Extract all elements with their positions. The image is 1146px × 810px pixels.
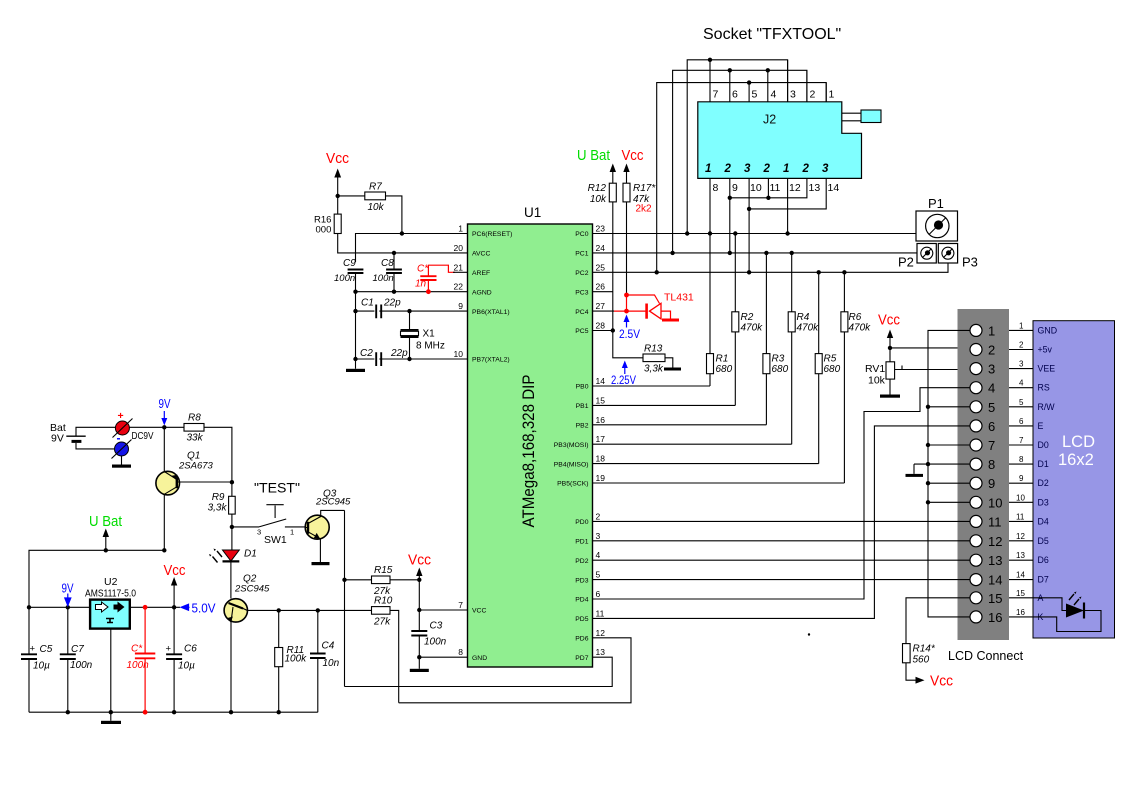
stray mark dot [808,633,810,635]
junction PC5/R12 [611,328,615,332]
svg-text:20: 20 [454,243,464,253]
svg-text:R14*: R14* [913,644,936,655]
wire PC0 row (pin23 to P1) [593,233,917,235]
svg-text:PD0: PD0 [575,519,588,526]
svg-text:10: 10 [454,349,464,359]
resistor R11 [275,610,307,712]
wire PC4 row pin27 [593,310,615,312]
junction PC2/R5 [817,270,821,274]
svg-text:1: 1 [290,528,294,537]
wire U Bat rail [29,550,164,607]
svg-text:11: 11 [988,514,1002,529]
wire AVCC row pin20 [352,252,468,254]
svg-text:+: + [118,410,124,422]
svg-text:R6: R6 [849,312,862,323]
wire J2 top pin stubs [710,60,826,102]
svg-text:R5: R5 [824,354,837,365]
svg-text:14: 14 [988,573,1002,588]
svg-text:3: 3 [988,362,995,377]
svg-text:3,3k: 3,3k [208,503,228,514]
svg-text:SW1: SW1 [264,534,287,546]
junction PC1/J2 [670,251,674,255]
svg-text:PC3: PC3 [575,289,588,296]
svg-text:15: 15 [596,395,606,405]
connector P3 [938,244,978,270]
wire D0 ground [928,444,970,446]
svg-text:VCC: VCC [472,608,486,615]
junction 9V row C7 [66,605,70,609]
power symbol U Bat (above R12) [577,148,616,183]
junction C8 top on AVCC [392,251,396,255]
svg-text:9: 9 [1019,474,1024,483]
svg-text:470k: 470k [797,323,820,334]
wire ground stem C9 column [355,292,357,369]
svg-text:R15: R15 [374,565,393,576]
svg-text:U Bat: U Bat [577,148,610,164]
svg-text:2SC945: 2SC945 [234,584,270,595]
wire GND pin row [419,656,467,658]
power symbol Vcc (C3) [408,553,431,580]
svg-text:23: 23 [596,224,606,234]
resistor R7 [338,182,402,234]
probe label 9V (regulator) [62,582,75,606]
LCD pin names [1038,325,1058,622]
svg-text:1: 1 [829,89,835,101]
svg-text:R13: R13 [644,344,663,355]
svg-text:D1: D1 [1038,459,1049,469]
junction J2 pin10 [747,207,751,211]
LCD connector circles and numbers [970,323,1002,625]
svg-text:11: 11 [596,608,605,618]
power symbol Vcc (RV1) [878,313,900,362]
svg-text:1n: 1n [415,279,427,290]
svg-text:R2: R2 [741,312,754,323]
svg-text:12: 12 [596,628,606,638]
wire PD6 wrap-around [399,638,631,703]
svg-text:PB2: PB2 [576,423,589,430]
svg-text:14: 14 [596,376,606,386]
svg-text:D4: D4 [1038,516,1049,526]
svg-text:P3: P3 [962,255,978,270]
svg-text:PD3: PD3 [575,577,588,584]
svg-text:17: 17 [596,434,606,444]
ground (LCD data) [906,474,924,477]
wire PB4 row pin18 [593,463,819,465]
regulator U2 AMS1117-5.0 [85,576,136,629]
resistor R2 [732,234,763,406]
svg-text:100n: 100n [424,637,447,648]
svg-text:3: 3 [596,531,601,541]
svg-text:14: 14 [828,182,840,194]
svg-text:PC2: PC2 [575,270,588,277]
svg-text:R3: R3 [772,354,785,365]
svg-text:D2: D2 [1038,478,1049,488]
svg-text:5.0V: 5.0V [192,602,217,616]
svg-text:PD7: PD7 [575,655,588,662]
junction Q1 collector rail [162,548,166,552]
resistor R17* [623,183,656,295]
ground (R13) [664,368,681,371]
svg-text:Socket "TFXTOOL": Socket "TFXTOOL" [703,26,841,43]
svg-text:3: 3 [822,163,829,175]
U1 right pin numbers [596,224,606,658]
svg-text:PD5: PD5 [575,616,588,623]
wire PC3 stub pin26 [593,291,614,293]
resistor R1 [707,234,733,387]
wire +5v to LCD pin2 [890,347,970,349]
svg-text:10: 10 [1016,493,1025,502]
wire VEE wiper to LCD pin3 [902,369,970,371]
svg-text:2: 2 [802,163,810,175]
connector J2 socket body [698,102,881,179]
svg-text:3: 3 [744,163,751,175]
resistor R4 [788,253,819,444]
wire PD2 to LCD pin13 [593,559,971,561]
wire PB0 row pin14 [593,385,711,387]
junction PC0/R2 [733,231,737,235]
junction PC2/pin10 [747,270,751,274]
resistor R3 [763,253,789,425]
svg-text:3: 3 [790,89,796,101]
svg-text:PB0: PB0 [576,384,589,391]
svg-text:15: 15 [988,591,1002,606]
J2 italic pin-row numbers 1 2 3 2 1 2 3 [705,163,829,175]
svg-text:Vcc: Vcc [878,313,900,329]
svg-text:13: 13 [988,553,1002,568]
junction gnd rail U2 [109,710,113,714]
power symbol Vcc (U2 output) [164,563,186,607]
svg-text:GND: GND [472,655,487,662]
svg-text:1: 1 [1019,321,1024,330]
svg-text:26: 26 [596,282,606,292]
svg-text:22: 22 [454,282,464,292]
wire J2 pin8 down to PC0 net [709,178,711,233]
capacitor C5 (polarized) [21,607,53,712]
svg-text:10: 10 [750,182,762,194]
svg-text:"TEST": "TEST" [254,480,300,496]
wire 9V regulator input row [29,606,90,608]
junction PC0/pin12 [785,231,789,235]
svg-text:5: 5 [1019,398,1024,407]
junction 9V row left / C5 [27,605,31,609]
svg-text:PB5(SCK): PB5(SCK) [557,481,588,488]
wire PB5 row pin19 [593,482,845,484]
svg-text:8: 8 [1019,455,1024,464]
svg-text:16: 16 [596,415,606,425]
svg-text:Vcc: Vcc [622,148,644,164]
svg-text:C5: C5 [40,644,53,655]
svg-text:14: 14 [1016,571,1025,580]
svg-text:1: 1 [458,224,463,234]
junction TL431 ref (red) [624,293,629,298]
svg-text:AMS1117-5.0: AMS1117-5.0 [85,588,136,600]
junction PC1/R3 [764,251,768,255]
junction PC0/pin8-R1 [708,231,712,235]
svg-text:2.5V: 2.5V [619,327,640,341]
svg-text:9: 9 [988,476,995,491]
svg-text:TL431: TL431 [664,292,694,304]
svg-text:J2: J2 [763,113,776,127]
svg-text:Vcc: Vcc [164,563,186,579]
svg-text:DC9V: DC9V [132,430,154,442]
wire J2 pins 9,11,13 bus [730,178,807,253]
svg-text:Vcc: Vcc [326,151,349,167]
svg-text:12: 12 [988,534,1002,549]
wire RS route LCD pin4 to PD4 [593,388,971,599]
wire PB3 row pin17 [593,443,792,445]
capacitor C4 [310,610,340,712]
svg-text:9: 9 [732,182,738,194]
capacitor C1 [356,298,468,319]
svg-text:6: 6 [1019,417,1024,426]
svg-text:560: 560 [913,655,930,666]
capacitor C6 (polarized) [166,607,198,712]
LCD stub pin numbers [1016,321,1025,617]
wire AREF stub pin21 [453,271,468,273]
svg-text:P2: P2 [898,255,914,270]
LED backlight (inside LCD) [1033,592,1101,632]
junction PC0/J2 [685,231,689,235]
transistor Q3 2SC945 (NPN) [305,489,351,563]
svg-text:4: 4 [596,550,601,560]
ground (DC9V) [112,465,131,468]
svg-text:27: 27 [596,301,606,311]
svg-text:9V: 9V [62,582,75,596]
U1 left pin names [472,231,512,662]
svg-text:13: 13 [1016,551,1025,560]
svg-text:25: 25 [596,262,606,272]
junction AGND C* red [426,289,431,294]
wire PD1 to LCD pin12 [593,540,971,542]
svg-text:P1: P1 [928,196,944,211]
svg-text:21: 21 [454,262,464,272]
wire J2 net TP1 top (pins 7,3) [687,60,787,234]
svg-text:27k: 27k [373,617,391,628]
svg-text:13: 13 [596,647,606,657]
svg-text:9V: 9V [51,433,64,445]
svg-text:R9: R9 [212,492,225,503]
svg-text:680: 680 [716,364,733,375]
junction Q1 base / R8 [230,480,234,484]
svg-text:3,3k: 3,3k [644,364,664,375]
svg-text:PB3(MOSI): PB3(MOSI) [554,442,589,449]
resistor R5 [815,272,840,463]
svg-text:6: 6 [596,589,601,599]
svg-text:4: 4 [1019,379,1024,388]
power symbol Vcc (R14, pointing right) [916,674,954,690]
svg-text:11: 11 [1016,512,1025,521]
diode D1 LED (red) [209,527,257,599]
connector DC9V plus (red) [113,410,154,442]
svg-text:2: 2 [724,163,732,175]
svg-text:2: 2 [763,163,771,175]
svg-text:3: 3 [257,528,261,537]
ground (Q3 emitter) [312,562,330,565]
wire U2 ground stem [110,629,112,721]
wire D3 ground [928,501,970,503]
svg-text:AREF: AREF [472,270,490,277]
ground (C3/MCU) [410,657,429,672]
junction C* output (red) [143,605,148,610]
svg-text:7: 7 [1019,436,1024,445]
wire D2 ground [928,482,970,484]
wire PC2 row (pin25 to P3) [593,263,949,272]
svg-text:-: - [117,431,121,445]
junction J2 pin4 [766,68,770,72]
switch SW1 [232,505,305,546]
wire R/W ground [928,406,970,408]
svg-text:000: 000 [316,225,332,236]
wire U2 output 5V row [130,606,180,608]
connector P1 [916,196,958,241]
svg-text:100n: 100n [70,660,93,671]
svg-text:+5v: +5v [1038,345,1053,355]
junction C6 top [172,605,176,609]
svg-text:9: 9 [458,301,463,311]
probe label 5.0V [181,602,216,616]
svg-text:PD1: PD1 [575,539,588,546]
svg-text:D7: D7 [1038,575,1049,585]
capacitor C8 [373,253,402,292]
resistor R6 [841,272,871,483]
junction J2 pin7 [708,58,712,62]
svg-text:D5: D5 [1038,536,1049,546]
svg-text:16: 16 [988,610,1002,625]
IC U1 ATMega8,168,328 DIP [468,205,593,667]
svg-text:1: 1 [705,163,711,175]
junction PC1/R4 [790,251,794,255]
svg-text:AGND: AGND [472,289,492,296]
wire PC1 row (pin24 to P2) [593,252,918,254]
svg-text:16: 16 [1016,608,1025,617]
junction R9 / SW1 [230,525,234,529]
probe label 2.25V [611,361,636,388]
svg-text:10: 10 [988,495,1002,510]
junction RV1 top / +5v wire [888,346,892,350]
junction gnd rail C* (red) [143,710,148,715]
svg-text:U2: U2 [104,576,118,588]
junction rail D2 [926,481,930,485]
svg-text:5: 5 [988,400,995,415]
svg-text:2k2: 2k2 [636,204,653,215]
wire bottom ground rail [29,711,318,713]
transistor Q2 2SC945 (NPN, rotated) [224,574,279,713]
svg-text:100n: 100n [373,273,394,284]
svg-text:D3: D3 [1038,497,1049,507]
wire J2 pin12 down to PC0 net [787,178,789,233]
junction X1 bottom [407,357,411,361]
ground (crystal section) [346,369,365,372]
svg-text:E: E [1038,421,1044,431]
svg-text:10n: 10n [323,658,340,669]
LCD stub wires connector to module [1009,330,1033,617]
svg-text:LCD Connect: LCD Connect [948,649,1024,663]
wire J2 pins 10,14 bus [749,178,826,272]
capacitor C* (AREF, red) [415,264,455,292]
wire Q2 collector row [279,609,372,611]
svg-text:GND: GND [1038,325,1058,335]
svg-text:X1: X1 [423,329,436,340]
svg-text:R8: R8 [188,413,201,424]
junction AGND C8 [392,290,396,294]
svg-text:D6: D6 [1038,555,1049,565]
svg-text:18: 18 [596,454,606,464]
junction J2 pin11 [766,196,770,200]
junction rail D1 [926,462,930,466]
svg-text:C3: C3 [430,621,443,632]
svg-text:R1: R1 [716,354,729,365]
wire PC5 row pin28 [593,330,613,332]
resistor R14* [903,644,936,681]
svg-text:C*: C* [417,264,429,275]
svg-text:R7: R7 [369,182,382,193]
wire J2 net TP2 top (pins 6,4,2) [673,70,807,253]
svg-text:10µ: 10µ [178,660,195,671]
svg-text:2SA673: 2SA673 [178,461,214,472]
wire PD0 to LCD pin11 [593,520,971,522]
svg-text:10k: 10k [368,202,385,213]
wire PB1 row pin15 [593,404,736,406]
svg-text:PB7(XTAL2): PB7(XTAL2) [472,357,510,364]
svg-text:9V: 9V [159,397,172,411]
junction 9V/Q1 emitter [162,425,166,429]
svg-text:PD4: PD4 [575,597,588,604]
svg-text:22p: 22p [383,298,401,309]
svg-text:19: 19 [596,473,606,483]
svg-text:12: 12 [1016,532,1025,541]
svg-text:U1: U1 [524,205,541,220]
svg-text:100n: 100n [334,273,355,284]
svg-text:C*: C* [131,644,143,655]
junction VCC pin row [417,608,421,612]
capacitor C* output (red) [127,607,156,712]
shunt regulator TL431 [614,292,694,322]
junction C2 left [353,357,357,361]
probe label 2.5V [619,315,640,342]
wire Vcc vertical to MCU VCC pin [419,580,467,610]
wire J2 net TP3 top (pins 5,1) [657,83,827,273]
svg-text:7: 7 [713,89,719,101]
svg-text:680: 680 [772,364,789,375]
resistor R15 [345,565,420,597]
svg-text:7: 7 [988,438,995,453]
J2 bottom pin numbers 8..14 [713,182,840,194]
junction TL431 cathode PC4 (red) [624,309,629,314]
connector LCD Connect body [958,309,1010,640]
svg-text:8: 8 [713,182,719,194]
wire PD3 to LCD pin14 [593,579,971,581]
svg-text:+: + [30,644,36,655]
junction GND row / C3 [417,655,421,659]
svg-text:11: 11 [770,182,781,194]
junction rail D3 [926,500,930,504]
junction AGND C9 [353,290,357,294]
U1 left pin numbers [454,224,464,658]
resistor R10 [372,596,399,703]
svg-text:R10: R10 [374,596,393,607]
svg-text:8 MHz: 8 MHz [416,341,445,352]
resistor R12 [588,183,617,331]
svg-text:PC0: PC0 [575,231,588,238]
wire RESET row pin1 [356,234,468,263]
junction R15 left / Q3 collector / PD7 [342,578,346,582]
svg-text:PB6(XTAL1): PB6(XTAL1) [472,309,510,316]
junction gnd rail C7 [66,710,70,714]
svg-text:8: 8 [988,457,995,472]
svg-text:2SC945: 2SC945 [315,497,351,508]
svg-text:VEE: VEE [1038,364,1056,374]
svg-text:10µ: 10µ [33,660,50,671]
